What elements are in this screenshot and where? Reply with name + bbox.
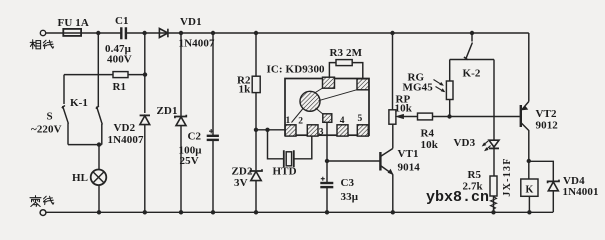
wire R1 left <box>64 74 113 76</box>
svg-text:ZD2: ZD2 <box>232 165 253 177</box>
svg-text:K-2: K-2 <box>463 67 481 79</box>
svg-text:K-1: K-1 <box>70 97 88 109</box>
svg-text:IC: KD9300: IC: KD9300 <box>267 64 326 76</box>
neutral terminal <box>40 210 46 216</box>
svg-text:C3: C3 <box>341 177 355 189</box>
bond wires <box>292 88 359 123</box>
wire S K-1 join <box>68 144 102 146</box>
wire pin3 down <box>326 122 328 161</box>
svg-text:ZD1: ZD1 <box>157 105 178 117</box>
lamp HL <box>91 170 107 186</box>
node D <box>211 31 215 35</box>
wire pin1 link <box>256 129 286 131</box>
diode VD4 <box>548 180 559 184</box>
svg-text:R1: R1 <box>113 81 127 93</box>
svg-text:ybx8.cn: ybx8.cn <box>426 189 489 206</box>
zener ZD2 <box>250 169 262 173</box>
pad pin1 <box>285 125 296 136</box>
svg-text:10k: 10k <box>395 103 413 115</box>
pad pin4 <box>337 125 348 136</box>
svg-text:10k: 10k <box>421 139 439 151</box>
fuse FU <box>63 29 81 36</box>
svg-text:R4: R4 <box>421 127 435 139</box>
node R2 bottom <box>254 128 258 132</box>
svg-text:VT1: VT1 <box>398 148 419 160</box>
wire HTD right <box>294 135 312 159</box>
wire ZD1 branch <box>180 33 182 117</box>
wire pin3 to VT1 <box>327 160 380 162</box>
label neutral 零线 <box>30 196 54 207</box>
capacitor C2 <box>207 135 219 137</box>
pad pin3 <box>323 114 332 123</box>
chip blob <box>300 91 320 111</box>
pad pin5 <box>357 125 368 136</box>
svg-text:VD2: VD2 <box>114 122 136 134</box>
resistor R1 <box>113 72 128 78</box>
node F <box>390 31 394 35</box>
watermark squiggle <box>491 197 497 210</box>
node pin3 <box>325 159 329 163</box>
svg-text:R5: R5 <box>468 169 482 181</box>
svg-text:R3 2M: R3 2M <box>330 47 363 59</box>
svg-text:1: 1 <box>286 116 291 126</box>
svg-text:1N4001: 1N4001 <box>563 186 599 198</box>
phase terminal <box>40 30 45 35</box>
svg-text:1N4007: 1N4007 <box>108 134 144 146</box>
IC U1 KD9300 body <box>285 79 369 136</box>
relay coil K <box>528 161 530 179</box>
node VT2 collector <box>527 159 531 163</box>
node H <box>97 142 101 146</box>
light arrows RG <box>434 80 445 92</box>
svg-text:JX-13F: JX-13F <box>502 157 513 196</box>
svg-text:25V: 25V <box>180 155 199 167</box>
resistor R3 <box>329 63 336 78</box>
pad pin2 <box>307 125 318 136</box>
svg-text:4: 4 <box>340 116 345 126</box>
svg-text:HTD: HTD <box>273 166 297 178</box>
diode VD1 <box>159 29 168 38</box>
svg-text:VT2: VT2 <box>536 108 557 120</box>
svg-text:MG45: MG45 <box>403 82 434 94</box>
svg-text:VD3: VD3 <box>454 137 476 149</box>
svg-text:HL: HL <box>72 172 88 184</box>
wire lamp to neutral <box>98 185 100 212</box>
wire to VT2 base <box>450 116 520 118</box>
label phase 相线 <box>30 40 53 49</box>
svg-text:9012: 9012 <box>536 119 559 131</box>
wire top rail <box>46 32 529 34</box>
wire to lamp <box>98 145 100 170</box>
svg-text:S: S <box>47 110 53 122</box>
bottom junction dots <box>97 210 101 214</box>
node HTD riser <box>265 128 269 132</box>
wire bottom rail <box>46 211 553 213</box>
wire K-1 drop <box>97 33 99 106</box>
diode VD2 <box>140 114 150 116</box>
relay contact K-1 <box>96 106 103 145</box>
wire to VD4 <box>529 161 554 181</box>
svg-text:9014: 9014 <box>398 161 421 173</box>
wire C2 branch <box>212 33 214 135</box>
zener ZD1 <box>175 115 186 119</box>
resistor R5 <box>490 176 497 196</box>
svg-text:5: 5 <box>358 114 363 124</box>
capacitor C3 <box>326 161 328 183</box>
svg-text:VD1: VD1 <box>180 16 202 28</box>
svg-text:3V: 3V <box>234 177 248 189</box>
transistor VT1 <box>379 152 381 171</box>
svg-text:400V: 400V <box>107 53 132 65</box>
capacitor C1 <box>121 27 126 39</box>
switch S <box>62 75 69 145</box>
led VD3 <box>493 60 495 140</box>
wire HTD left <box>268 130 284 159</box>
node B <box>142 31 146 35</box>
svg-text:~220V: ~220V <box>31 123 62 135</box>
svg-text:C1: C1 <box>115 15 129 27</box>
svg-text:3: 3 <box>319 128 324 138</box>
svg-text:FU 1A: FU 1A <box>58 17 89 29</box>
transistor VT2 <box>520 105 522 127</box>
node R1 <box>143 72 147 76</box>
buzzer HTD <box>284 150 294 167</box>
svg-text:1k: 1k <box>239 83 252 95</box>
wire VD2 branch <box>144 33 146 113</box>
potentiometer RP <box>392 33 394 110</box>
led arrows VD3 <box>483 141 491 151</box>
wire R2 branch <box>255 33 257 76</box>
svg-text:1N4007: 1N4007 <box>179 37 215 49</box>
resistor R4 <box>418 113 433 120</box>
node E <box>254 31 258 35</box>
wiper arrow <box>400 116 418 118</box>
pad top-right <box>357 79 369 90</box>
svg-text:K: K <box>526 184 534 195</box>
relay contact K-2 <box>464 33 473 60</box>
wire R1 right <box>128 74 145 76</box>
pad top-left <box>323 77 335 88</box>
photoresistor RG <box>449 60 451 82</box>
wire K-2 bottom <box>450 59 494 61</box>
node R4 <box>447 114 451 118</box>
node A <box>96 31 100 35</box>
node G <box>470 31 474 35</box>
node C <box>179 31 183 35</box>
svg-text:33μ: 33μ <box>341 191 359 203</box>
resistor R2 <box>252 76 260 92</box>
svg-text:C2: C2 <box>188 131 202 143</box>
svg-text:2: 2 <box>298 116 303 126</box>
